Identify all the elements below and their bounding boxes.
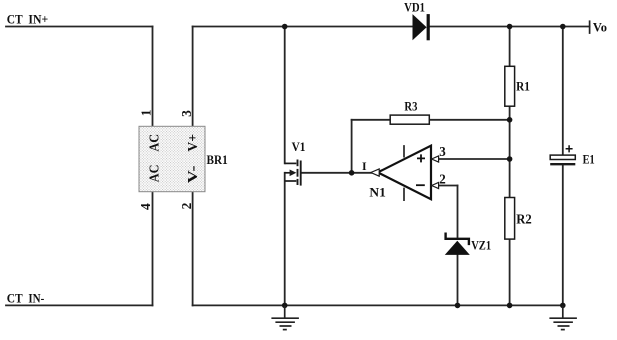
wire pin2 down to VZ1: [457, 186, 459, 238]
wire R3 left lead: [352, 119, 391, 121]
wire VZ1 to ground rail: [457, 255, 459, 305]
svg-text:V+: V+: [185, 134, 200, 152]
svg-text:V1: V1: [292, 139, 306, 154]
resistor R1: [505, 66, 515, 106]
svg-text:N1: N1: [369, 185, 385, 200]
svg-text:R1: R1: [516, 79, 530, 94]
wire E1 top lead: [562, 27, 564, 156]
wire BR1 pin4 vertical: [152, 192, 154, 306]
wire op-amp pin3 to divider: [437, 158, 510, 160]
wire top-left rail from CT IN+: [6, 26, 153, 28]
op-amp N1 triangle: [378, 146, 431, 200]
capacitor E1 plus sign: [566, 145, 573, 152]
label CT IN+: [7, 12, 48, 27]
svg-text:1: 1: [139, 109, 154, 116]
wire CT IN- rail: [6, 304, 153, 306]
ground (left, at V1 source): [271, 305, 299, 329]
svg-text:Vo: Vo: [593, 21, 607, 35]
svg-text:IN-: IN-: [28, 290, 44, 305]
op-amp N1 minus sign: [416, 184, 425, 186]
svg-text:3: 3: [439, 144, 446, 159]
wire BR1 pin2 vertical: [192, 192, 194, 306]
transistor V1 (MOSFET): [285, 160, 301, 186]
wire node I up to R3: [351, 120, 353, 173]
wire R1 bottom to R2 top: [509, 106, 511, 197]
wire node I to op-amp output: [352, 172, 371, 174]
capacitor E1: [550, 155, 575, 164]
svg-text:CT: CT: [7, 12, 23, 27]
svg-text:3: 3: [179, 110, 194, 117]
wire R2 bottom lead: [509, 239, 511, 305]
wire R1 top lead: [509, 27, 511, 67]
svg-text:VD1: VD1: [404, 1, 425, 15]
wire V1 source vertical: [284, 173, 286, 306]
wire top rail to VD1 anode: [193, 26, 413, 28]
resistor R3: [390, 115, 429, 124]
node CT IN+: [0, 0, 1, 1]
svg-text:AC: AC: [147, 134, 162, 152]
svg-text:V-: V-: [185, 165, 200, 183]
svg-text:R2: R2: [516, 211, 532, 226]
op-amp output pin arrow: [371, 169, 379, 176]
zener diode VZ1: [445, 233, 470, 255]
wire V1 gate to node I: [301, 172, 351, 174]
transistor V1 arrow: [290, 170, 297, 177]
wire BR1 pin3 vertical: [192, 27, 194, 127]
svg-text:BR1: BR1: [207, 152, 228, 167]
op-amp N1 plus sign: [417, 154, 425, 162]
svg-text:CT: CT: [7, 290, 23, 305]
op-amp pin3 arrow: [432, 156, 439, 162]
svg-text:IN+: IN+: [28, 12, 48, 27]
label CT IN-: [7, 290, 45, 305]
diode VD1: [413, 14, 430, 40]
wire BR1 pin1 vertical: [152, 27, 154, 127]
svg-text:AC: AC: [147, 165, 162, 183]
bridge rectifier BR1 body: [139, 126, 205, 191]
svg-text:4: 4: [138, 203, 153, 210]
ground (right, at E1): [549, 305, 577, 329]
svg-text:2: 2: [179, 202, 194, 209]
wire VD1 cathode to Vo: [430, 26, 590, 28]
wire bottom ground rail: [193, 304, 563, 306]
svg-text:E1: E1: [583, 153, 595, 167]
svg-text:R3: R3: [404, 100, 417, 114]
wire V1 drain vertical: [284, 27, 286, 164]
svg-text:2: 2: [439, 171, 446, 186]
svg-text:I: I: [362, 159, 367, 173]
wire R3 right lead: [429, 119, 509, 121]
terminal Vo tick: [589, 20, 591, 34]
resistor R2: [505, 198, 515, 240]
wire E1 bottom lead: [562, 165, 564, 306]
svg-text:VZ1: VZ1: [471, 239, 491, 253]
wire op-amp pin2 lead: [437, 185, 458, 187]
op-amp pin2 arrow: [432, 182, 439, 188]
op-amp N1 power stubs: [403, 145, 405, 201]
